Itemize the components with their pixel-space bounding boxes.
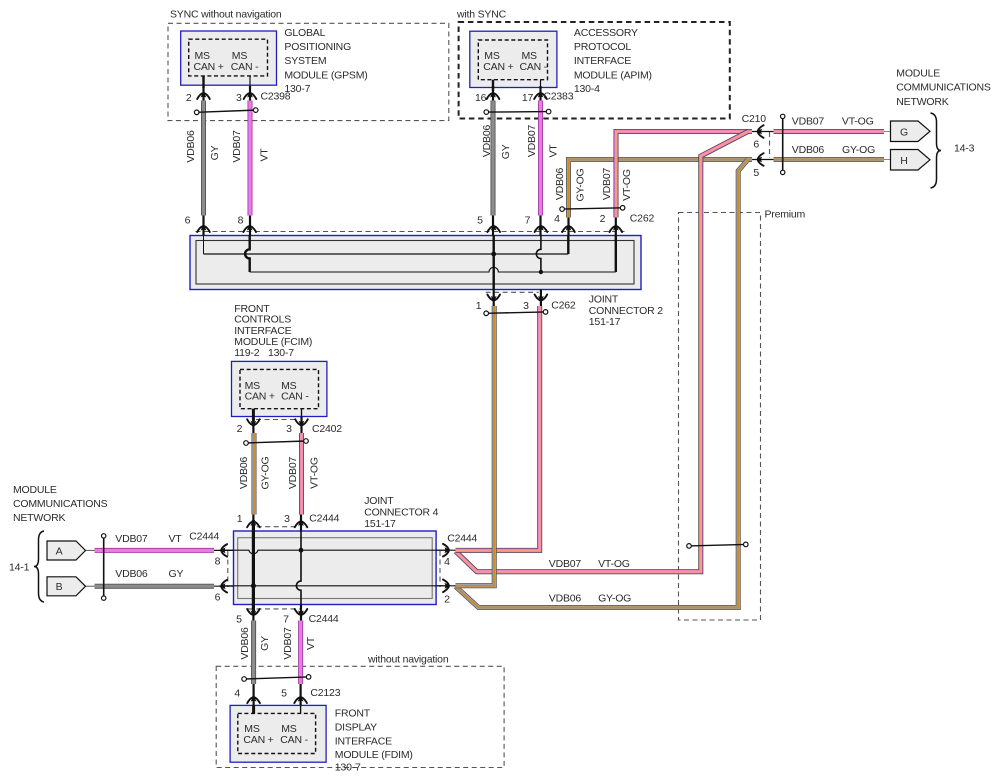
svg-text:VT: VT [258, 148, 270, 162]
svg-text:GY-OG: GY-OG [598, 593, 631, 605]
svg-text:7: 7 [283, 613, 289, 625]
svg-text:JOINT: JOINT [364, 495, 394, 507]
svg-text:CAN +: CAN + [245, 391, 275, 403]
svg-text:2: 2 [444, 593, 450, 605]
svg-text:4: 4 [234, 687, 240, 699]
svg-text:2: 2 [600, 213, 606, 225]
svg-text:VDB07: VDB07 [231, 130, 243, 163]
svg-text:CAN -: CAN - [280, 734, 308, 746]
svg-text:MS: MS [195, 50, 211, 62]
svg-text:5: 5 [477, 214, 483, 226]
svg-text:GY: GY [500, 144, 512, 159]
svg-text:with SYNC: with SYNC [456, 9, 507, 21]
svg-text:CAN -: CAN - [231, 61, 259, 73]
svg-text:CAN +: CAN + [483, 61, 513, 73]
svg-text:VDB06: VDB06 [481, 125, 493, 158]
svg-text:VDB06: VDB06 [549, 593, 582, 605]
svg-text:C2444: C2444 [189, 531, 219, 543]
svg-text:1: 1 [476, 300, 482, 312]
svg-text:VT: VT [305, 636, 317, 650]
svg-text:MODULE (FDIM): MODULE (FDIM) [335, 749, 413, 761]
svg-text:5: 5 [281, 687, 287, 699]
svg-text:GY: GY [169, 568, 184, 580]
svg-text:GY: GY [209, 145, 221, 160]
svg-text:CAN +: CAN + [194, 61, 224, 73]
svg-text:GLOBAL: GLOBAL [284, 27, 325, 39]
svg-text:Premium: Premium [765, 208, 806, 220]
svg-text:VT-OG: VT-OG [308, 457, 320, 489]
svg-text:C210: C210 [742, 113, 767, 125]
svg-text:without navigation: without navigation [367, 653, 449, 665]
svg-text:4: 4 [554, 213, 560, 225]
svg-text:2: 2 [237, 423, 243, 435]
svg-text:CAN +: CAN + [243, 734, 273, 746]
svg-text:VDB07: VDB07 [601, 168, 613, 201]
svg-text:VT-OG: VT-OG [621, 169, 633, 201]
svg-text:CONNECTOR 4: CONNECTOR 4 [364, 507, 438, 519]
svg-text:VDB06: VDB06 [792, 144, 825, 156]
svg-text:DISPLAY: DISPLAY [335, 721, 377, 733]
svg-text:COMMUNICATIONS: COMMUNICATIONS [896, 82, 991, 94]
svg-text:2: 2 [186, 92, 192, 104]
svg-text:NETWORK: NETWORK [896, 96, 948, 108]
svg-text:C2383: C2383 [543, 91, 573, 103]
svg-text:VT: VT [169, 533, 183, 545]
svg-text:A: A [56, 546, 63, 558]
svg-text:VT-OG: VT-OG [598, 558, 630, 570]
svg-text:VDB06: VDB06 [554, 168, 566, 201]
svg-text:H: H [900, 155, 907, 167]
svg-text:151-17: 151-17 [364, 518, 396, 530]
svg-text:C2123: C2123 [310, 687, 340, 699]
svg-text:C262: C262 [630, 213, 655, 225]
svg-text:8: 8 [215, 555, 221, 567]
svg-text:G: G [900, 126, 908, 138]
svg-text:SYNC without navigation: SYNC without navigation [170, 9, 282, 21]
svg-text:PROTOCOL: PROTOCOL [574, 41, 631, 53]
svg-text:3: 3 [286, 423, 292, 435]
svg-text:VT: VT [547, 144, 559, 158]
svg-text:MODULE: MODULE [13, 484, 57, 496]
svg-text:ACCESSORY: ACCESSORY [574, 27, 638, 39]
svg-text:GY: GY [259, 636, 271, 651]
svg-text:FRONT: FRONT [335, 707, 371, 719]
svg-text:3: 3 [284, 513, 290, 525]
svg-text:JOINT: JOINT [589, 294, 619, 306]
svg-text:6: 6 [215, 591, 221, 603]
svg-text:C2444: C2444 [309, 513, 339, 525]
svg-text:130-4: 130-4 [574, 83, 600, 95]
svg-text:VDB06: VDB06 [239, 627, 251, 660]
svg-text:119-2: 119-2 [234, 347, 259, 359]
svg-text:17: 17 [522, 92, 534, 104]
svg-text:151-17: 151-17 [589, 316, 621, 328]
svg-text:130-7: 130-7 [268, 347, 294, 359]
svg-text:VDB06: VDB06 [238, 457, 250, 490]
svg-text:SYSTEM: SYSTEM [284, 55, 326, 67]
svg-text:C2402: C2402 [312, 423, 342, 435]
svg-text:CAN -: CAN - [281, 391, 309, 403]
svg-text:GY-OG: GY-OG [575, 168, 587, 201]
svg-text:C262: C262 [551, 300, 576, 312]
svg-text:GY-OG: GY-OG [842, 144, 875, 156]
svg-text:MODULE (GPSM): MODULE (GPSM) [284, 70, 367, 82]
svg-text:INTERFACE: INTERFACE [574, 55, 631, 67]
svg-text:VT-OG: VT-OG [842, 116, 874, 128]
svg-text:CONNECTOR 2: CONNECTOR 2 [589, 305, 663, 317]
svg-text:C2398: C2398 [261, 91, 291, 103]
svg-text:VDB06: VDB06 [185, 130, 197, 163]
svg-text:C2444: C2444 [447, 533, 477, 545]
svg-text:VDB07: VDB07 [526, 125, 538, 158]
svg-text:16: 16 [475, 92, 487, 104]
svg-text:MODULE: MODULE [896, 67, 940, 79]
svg-text:VDB06: VDB06 [115, 568, 148, 580]
svg-text:130-7: 130-7 [335, 761, 361, 773]
svg-text:14-1: 14-1 [9, 562, 30, 574]
svg-text:COMMUNICATIONS: COMMUNICATIONS [13, 498, 108, 510]
svg-text:B: B [56, 581, 63, 593]
svg-text:6: 6 [185, 214, 191, 226]
svg-text:MODULE (APIM): MODULE (APIM) [574, 70, 652, 82]
svg-text:VDB07: VDB07 [792, 116, 825, 128]
svg-text:MS: MS [522, 50, 538, 62]
svg-text:1: 1 [237, 513, 243, 525]
svg-text:MS: MS [281, 723, 297, 735]
svg-text:14-3: 14-3 [954, 143, 975, 155]
svg-text:7: 7 [525, 214, 531, 226]
svg-text:VDB07: VDB07 [549, 558, 582, 570]
svg-text:CAN -: CAN - [520, 61, 548, 73]
svg-text:4: 4 [444, 556, 450, 568]
svg-text:5: 5 [236, 613, 242, 625]
svg-text:3: 3 [523, 300, 529, 312]
svg-text:POSITIONING: POSITIONING [284, 41, 351, 53]
svg-text:INTERFACE: INTERFACE [335, 735, 392, 747]
svg-text:VDB07: VDB07 [115, 533, 148, 545]
svg-text:VDB07: VDB07 [282, 627, 294, 660]
svg-text:VDB07: VDB07 [287, 457, 299, 490]
svg-text:C2444: C2444 [309, 613, 339, 625]
svg-text:GY-OG: GY-OG [260, 456, 272, 489]
svg-text:MS: MS [484, 50, 500, 62]
svg-text:MS: MS [232, 50, 248, 62]
svg-text:3: 3 [236, 92, 242, 104]
svg-text:MS: MS [244, 723, 260, 735]
svg-text:5: 5 [753, 167, 759, 179]
svg-text:NETWORK: NETWORK [13, 512, 65, 524]
svg-text:6: 6 [753, 138, 759, 150]
svg-text:8: 8 [238, 214, 244, 226]
